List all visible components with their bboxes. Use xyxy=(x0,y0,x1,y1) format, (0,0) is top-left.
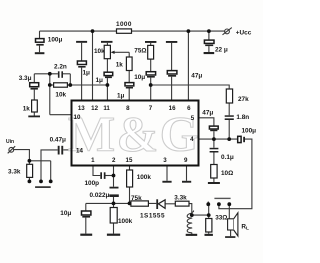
svg-text:Uin: Uin xyxy=(6,139,14,145)
svg-text:10k: 10k xyxy=(55,91,66,98)
svg-text:1μ: 1μ xyxy=(83,70,91,77)
svg-text:0.1μ: 0.1μ xyxy=(221,154,234,161)
svg-text:+Ucc: +Ucc xyxy=(236,29,252,36)
svg-text:3.3k: 3.3k xyxy=(174,195,187,202)
svg-text:3.3k: 3.3k xyxy=(8,168,21,175)
svg-text:4: 4 xyxy=(190,136,194,143)
svg-text:1μ: 1μ xyxy=(96,77,104,84)
svg-text:1μ: 1μ xyxy=(117,93,125,100)
svg-text:27k: 27k xyxy=(238,96,249,103)
svg-text:15: 15 xyxy=(126,157,133,164)
svg-text:1k: 1k xyxy=(23,106,31,113)
svg-text:10Ω: 10Ω xyxy=(221,170,233,177)
svg-text:100μ: 100μ xyxy=(48,37,63,44)
svg-text:75Ω: 75Ω xyxy=(134,48,146,55)
svg-text:0.022μ: 0.022μ xyxy=(90,192,110,199)
svg-text:100k: 100k xyxy=(118,218,133,225)
svg-text:14: 14 xyxy=(76,148,83,155)
svg-text:3.3μ: 3.3μ xyxy=(19,75,32,82)
svg-text:100p: 100p xyxy=(85,180,100,187)
svg-text:47μ: 47μ xyxy=(191,73,202,80)
svg-text:100μ: 100μ xyxy=(242,127,257,134)
svg-text:1.8n: 1.8n xyxy=(236,114,249,121)
svg-text:9: 9 xyxy=(184,157,188,164)
svg-text:22 μ: 22 μ xyxy=(215,46,228,53)
svg-text:13: 13 xyxy=(78,105,85,112)
svg-text:7: 7 xyxy=(149,105,153,112)
svg-text:8: 8 xyxy=(126,105,130,112)
svg-text:5: 5 xyxy=(191,115,195,122)
svg-text:2.2n: 2.2n xyxy=(54,64,67,71)
svg-text:11: 11 xyxy=(103,105,110,112)
svg-text:1000: 1000 xyxy=(116,21,132,28)
svg-text:10k: 10k xyxy=(94,48,105,55)
svg-text:0.47μ: 0.47μ xyxy=(50,137,66,144)
svg-text:6: 6 xyxy=(187,105,191,112)
svg-text:3: 3 xyxy=(163,157,167,164)
svg-text:10μ: 10μ xyxy=(60,210,71,217)
svg-text:47μ: 47μ xyxy=(202,109,213,116)
svg-text:1S1555: 1S1555 xyxy=(140,213,165,220)
svg-text:1k: 1k xyxy=(116,62,124,69)
svg-text:RL: RL xyxy=(241,224,249,232)
svg-text:M&G: M&G xyxy=(68,106,200,162)
svg-text:1: 1 xyxy=(91,157,95,164)
svg-text:16: 16 xyxy=(169,105,176,112)
svg-text:10: 10 xyxy=(74,114,81,121)
svg-text:33Ω: 33Ω xyxy=(215,214,227,221)
svg-text:10μ: 10μ xyxy=(134,74,145,81)
svg-text:75k: 75k xyxy=(131,195,142,202)
svg-text:2: 2 xyxy=(112,157,116,164)
svg-text:12: 12 xyxy=(91,105,98,112)
svg-text:100k: 100k xyxy=(137,174,152,181)
